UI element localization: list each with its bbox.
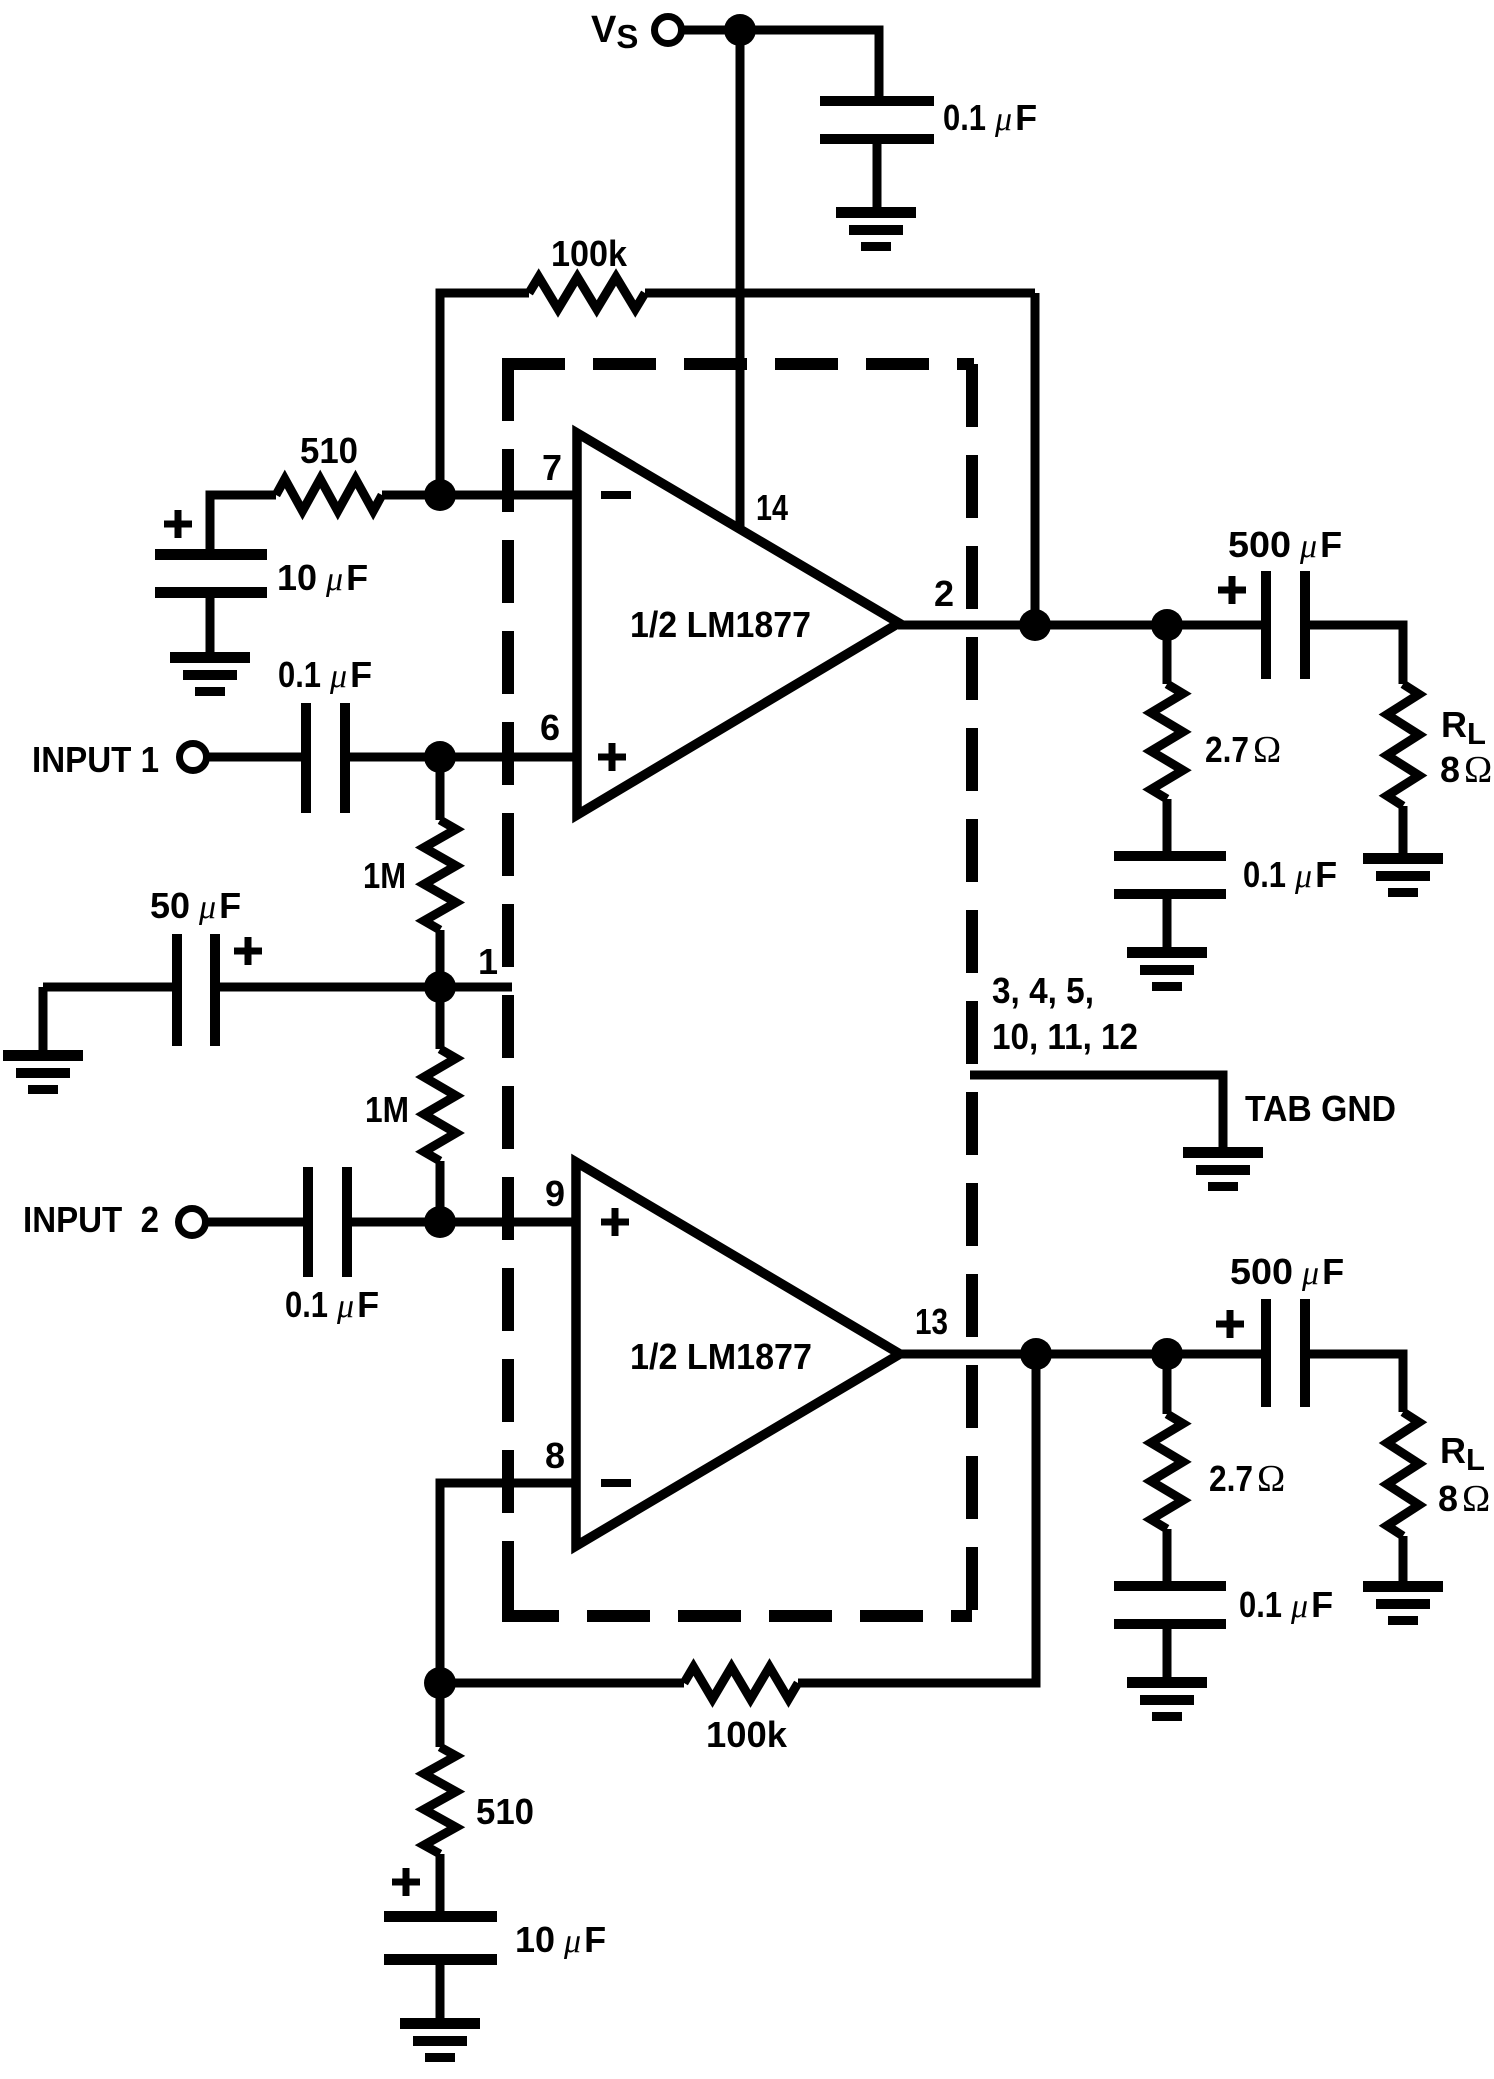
plus sign U1B bbox=[601, 1208, 629, 1236]
junction output1 branch bbox=[1151, 609, 1183, 641]
wire pin6 node to R3 bbox=[436, 757, 445, 987]
svg-text:510: 510 bbox=[300, 430, 358, 471]
op-amp U1B 1/2 LM1877 bbox=[576, 1162, 900, 1546]
junction output1 feedback bbox=[1019, 609, 1051, 641]
svg-text:500μF: 500μF bbox=[1230, 1251, 1344, 1292]
terminal INPUT 2 bbox=[179, 1209, 206, 1236]
svg-text:6: 6 bbox=[540, 707, 560, 748]
wire VS node to bypass cap bbox=[740, 30, 879, 98]
ground TAB bbox=[1183, 1147, 1263, 1191]
wire RL2 to ground bbox=[1399, 1536, 1408, 1584]
IC package dashed box bottom edge bbox=[508, 1604, 972, 1616]
resistor RL1 8 ohm bbox=[1387, 684, 1419, 806]
wire C8 to RL2 bbox=[1310, 1354, 1403, 1412]
terminal INPUT 1 bbox=[180, 744, 207, 771]
wire INPUT 1 to C3 bbox=[206, 753, 303, 762]
svg-text:8Ω: 8Ω bbox=[1438, 1478, 1490, 1520]
svg-text:510: 510 bbox=[476, 1791, 534, 1832]
svg-text:TAB GND: TAB GND bbox=[1245, 1088, 1396, 1129]
IC package dashed box left edge bbox=[508, 364, 514, 1616]
wire output2 branch to R6 bbox=[1163, 1354, 1172, 1585]
ground RL2 bbox=[1363, 1581, 1443, 1625]
wire INPUT 2 to C5 bbox=[205, 1218, 305, 1227]
capacitor C4 50uF bbox=[172, 934, 220, 1046]
svg-text:0.1μF: 0.1μF bbox=[278, 654, 372, 695]
ground supply bypass bbox=[836, 207, 916, 251]
wire output 1 bbox=[898, 621, 1263, 630]
capacitor C2 10uF bbox=[155, 549, 267, 657]
wire ground pins to tab ground bbox=[970, 1075, 1223, 1150]
plus sign U1A bbox=[598, 743, 626, 771]
wire C5 to pin 9 bbox=[352, 1218, 576, 1227]
svg-text:INPUT 2: INPUT 2 bbox=[23, 1199, 159, 1240]
svg-text:0.1μF: 0.1μF bbox=[943, 97, 1037, 138]
resistor R3 1M upper bbox=[424, 820, 456, 930]
junction output2 branch bbox=[1151, 1338, 1183, 1370]
wire pin 8 to feedback node bbox=[440, 1483, 576, 1683]
plus sign C10 bbox=[392, 1868, 420, 1896]
wire output 2 bbox=[900, 1350, 1263, 1359]
svg-text:INPUT 1: INPUT 1 bbox=[32, 739, 159, 780]
wire feedback 1 right bbox=[1031, 293, 1040, 625]
svg-text:100k: 100k bbox=[706, 1714, 788, 1755]
wire feedback 1 left bbox=[440, 293, 1035, 495]
plus sign C4 bbox=[234, 937, 262, 965]
svg-text:2: 2 bbox=[934, 573, 954, 614]
svg-text:RL: RL bbox=[1440, 1430, 1485, 1477]
svg-text:1: 1 bbox=[478, 941, 498, 982]
svg-text:1/2 LM1877: 1/2 LM1877 bbox=[630, 1336, 812, 1377]
capacitor C5 0.1uF input 2 bbox=[303, 1167, 352, 1277]
junction VS node bbox=[724, 14, 756, 46]
minus sign U1A bbox=[601, 491, 631, 499]
wire RL1 to ground bbox=[1399, 806, 1408, 856]
capacitor C7 0.1uF output 1 bbox=[1114, 851, 1226, 951]
wire C6 to RL1 bbox=[1310, 625, 1403, 684]
wire node 1 to IC box bbox=[440, 983, 512, 992]
minus sign U1B bbox=[601, 1479, 631, 1487]
resistor R6 2.7 ohm bbox=[1151, 1414, 1183, 1529]
resistor R5 2.7 ohm bbox=[1151, 684, 1183, 799]
capacitor C10 10uF bbox=[384, 1911, 497, 2022]
resistor R2 510 op-amp 1 bbox=[276, 479, 382, 511]
svg-text:500μF: 500μF bbox=[1228, 524, 1342, 565]
svg-text:0.1μF: 0.1μF bbox=[1239, 1584, 1333, 1625]
svg-text:RL: RL bbox=[1441, 704, 1486, 751]
svg-text:9: 9 bbox=[545, 1173, 565, 1214]
svg-text:2.7Ω: 2.7Ω bbox=[1209, 1458, 1285, 1500]
svg-text:100k: 100k bbox=[551, 233, 628, 274]
ground C10 bbox=[400, 2018, 480, 2062]
wire node1 to R4 to pin9 node bbox=[436, 987, 445, 1222]
svg-text:10μF: 10μF bbox=[515, 1919, 606, 1960]
wire VS terminal to node bbox=[681, 26, 740, 35]
IC package dashed box right edge bbox=[966, 364, 978, 1616]
capacitor C1 0.1uF supply bypass bbox=[820, 96, 934, 212]
capacitor C3 0.1uF input 1 bbox=[301, 703, 350, 813]
ground C4 bbox=[3, 1050, 83, 1094]
junction output2 feedback bbox=[1020, 1338, 1052, 1370]
plus sign C8 bbox=[1216, 1310, 1244, 1338]
capacitor C9 0.1uF output 2 bbox=[1114, 1581, 1226, 1681]
resistor RL2 8 ohm bbox=[1387, 1412, 1419, 1536]
svg-text:2.7Ω: 2.7Ω bbox=[1205, 729, 1281, 771]
junction node pin7 bbox=[424, 479, 456, 511]
op-amp U1A 1/2 LM1877 bbox=[577, 433, 899, 815]
svg-text:14: 14 bbox=[756, 487, 788, 528]
wire feedback2 node to R8 to C10 bbox=[436, 1683, 445, 1913]
svg-text:7: 7 bbox=[542, 447, 562, 488]
resistor R4 1M lower bbox=[424, 1049, 456, 1161]
plus sign C6 bbox=[1218, 576, 1246, 604]
ground C2 bbox=[170, 652, 250, 696]
wire VS node to pin 14 bbox=[736, 30, 745, 529]
svg-text:3, 4, 5,: 3, 4, 5, bbox=[992, 970, 1094, 1011]
svg-text:1/2 LM1877: 1/2 LM1877 bbox=[630, 604, 811, 645]
capacitor C8 500uF output 2 bbox=[1261, 1299, 1310, 1407]
resistor R7 100k feedback 2 bbox=[684, 1667, 798, 1699]
junction node 1 bbox=[424, 971, 456, 1003]
svg-text:10μF: 10μF bbox=[277, 557, 368, 598]
svg-text:0.1μF: 0.1μF bbox=[285, 1284, 379, 1325]
capacitor C6 500uF output 1 bbox=[1261, 571, 1310, 679]
junction node pin9 bbox=[424, 1206, 456, 1238]
plus sign C2 10uF bbox=[164, 510, 192, 538]
wire R2 to pin 7 bbox=[210, 495, 577, 550]
svg-text:1M: 1M bbox=[363, 855, 406, 896]
wire C4 to node 1 bbox=[220, 983, 440, 992]
svg-text:8: 8 bbox=[545, 1435, 565, 1476]
svg-text:1M: 1M bbox=[365, 1089, 409, 1130]
ground C9 bbox=[1127, 1677, 1207, 1721]
wire C3 to pin 6 bbox=[350, 753, 577, 762]
ground C7 bbox=[1127, 947, 1207, 991]
svg-text:10, 11, 12: 10, 11, 12 bbox=[992, 1016, 1138, 1057]
terminal VS bbox=[655, 17, 682, 44]
wire output1 branch to R5 bbox=[1163, 625, 1172, 855]
resistor R8 510 op-amp 2 bbox=[424, 1747, 456, 1854]
svg-text:50μF: 50μF bbox=[150, 885, 241, 926]
resistor R1 100k feedback 1 bbox=[529, 277, 645, 309]
wire ground to C4 bbox=[43, 987, 174, 1053]
svg-text:13: 13 bbox=[915, 1301, 948, 1342]
svg-text:0.1μF: 0.1μF bbox=[1243, 854, 1337, 895]
junction feedback 2 node bbox=[424, 1667, 456, 1699]
svg-text:8Ω: 8Ω bbox=[1440, 749, 1492, 791]
ground RL1 bbox=[1363, 853, 1443, 897]
IC package dashed box top edge bbox=[508, 364, 974, 370]
wire feedback 2 bbox=[440, 1354, 1036, 1683]
junction node pin6 bbox=[424, 741, 456, 773]
svg-text:VS: VS bbox=[591, 9, 638, 55]
